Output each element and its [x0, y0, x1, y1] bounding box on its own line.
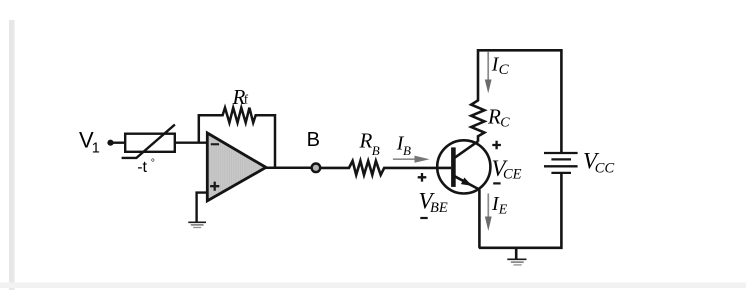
- svg-text:R: R: [487, 104, 501, 128]
- svg-text:C: C: [499, 62, 510, 78]
- svg-text:CC: CC: [595, 160, 615, 176]
- svg-text:°: °: [151, 157, 155, 169]
- svg-text:BE: BE: [430, 200, 448, 216]
- svg-text:1: 1: [92, 141, 100, 157]
- svg-text:R: R: [359, 129, 373, 153]
- svg-text:B: B: [372, 143, 380, 158]
- svg-text:CE: CE: [503, 167, 522, 183]
- svg-text:f: f: [244, 92, 249, 107]
- svg-text:C: C: [500, 116, 510, 131]
- svg-text:E: E: [498, 203, 508, 218]
- svg-text:B: B: [403, 143, 411, 158]
- svg-text:B: B: [307, 129, 320, 151]
- svg-text:-t: -t: [137, 159, 147, 176]
